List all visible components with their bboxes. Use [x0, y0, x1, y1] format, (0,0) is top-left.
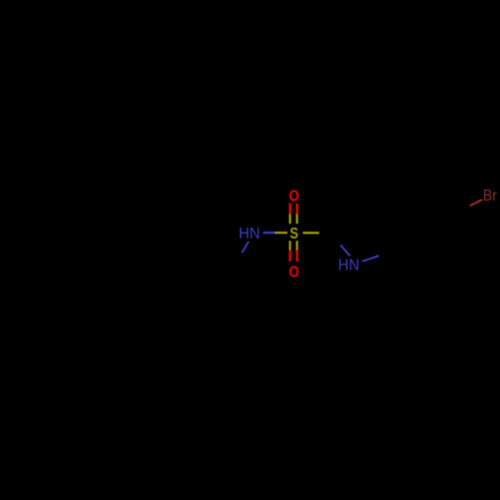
svg-text:O: O: [289, 188, 299, 205]
svg-text:S: S: [290, 226, 299, 243]
svg-text:HN: HN: [239, 226, 260, 243]
svg-text:Br: Br: [483, 188, 497, 205]
svg-text:O: O: [289, 264, 299, 281]
svg-text:HN: HN: [338, 257, 359, 274]
